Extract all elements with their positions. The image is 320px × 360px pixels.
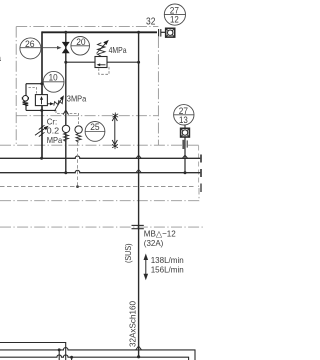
hose coupler socket 27-13 xyxy=(181,128,190,137)
boundary dash-dot left xyxy=(15,27,17,145)
junction P4/P1 xyxy=(64,31,67,34)
pipe union xyxy=(158,29,160,37)
arrow from balloon 26 xyxy=(20,47,60,49)
branch pipe P2 vertical xyxy=(41,31,43,158)
relief valve pilot dashed xyxy=(29,87,37,93)
junction P4/inlet xyxy=(64,61,67,64)
junction riser/P1 xyxy=(137,31,140,34)
drop from line B xyxy=(58,350,60,360)
svg-text:156L/min: 156L/min xyxy=(151,265,184,275)
svg-text:4MPa: 4MPa xyxy=(109,45,127,55)
tank line B (y350) xyxy=(0,348,195,360)
svg-text:MPa: MPa xyxy=(47,135,63,145)
svg-text:26: 26 xyxy=(25,39,35,50)
junction P4/L2 xyxy=(64,171,67,174)
tank line C (y357) xyxy=(0,355,189,360)
boundary dash-dot mid horizontal xyxy=(0,144,199,146)
boundary dash-dot right vertical xyxy=(157,37,159,145)
relief valve adjust arrow xyxy=(54,98,62,112)
drain header dashed line L3 xyxy=(0,186,196,188)
svg-text:MB△−12: MB△−12 xyxy=(144,229,176,239)
svg-text:13: 13 xyxy=(179,115,188,126)
branch pipe P4 vertical xyxy=(65,32,67,172)
terminal bar L1 xyxy=(200,155,202,163)
flange joint on riser xyxy=(132,224,144,226)
svg-text:32AxSch160: 32AxSch160 xyxy=(128,301,138,347)
bleed loop left xyxy=(25,84,27,96)
bleed loop bottom xyxy=(26,109,56,111)
reducing valve inlet pipe xyxy=(66,61,95,63)
tank line A (y342) xyxy=(0,343,66,360)
pressure reducing valve body xyxy=(95,57,107,68)
boundary dash-dot top xyxy=(16,26,158,28)
balloon 26 xyxy=(20,38,41,59)
reducing valve spring xyxy=(98,43,106,57)
reducing valve internal arrow xyxy=(99,64,106,66)
flow arrow double headed xyxy=(145,256,147,278)
svg-text:138L/min: 138L/min xyxy=(151,255,184,265)
riser pipe P5 xyxy=(138,32,140,357)
note asterisk top xyxy=(112,113,118,119)
svg-text:10: 10 xyxy=(49,72,58,83)
balloon 27/12 xyxy=(164,4,185,25)
coupler stem xyxy=(184,125,186,128)
bulkhead union xyxy=(182,140,185,149)
note arrow (double headed) xyxy=(114,117,116,145)
svg-text:a: a xyxy=(0,53,1,63)
boundary dash-dot inner horizontal xyxy=(16,115,158,117)
reducing valve outlet pipe xyxy=(107,61,139,63)
balloon 25 xyxy=(85,121,105,141)
svg-text:(32A): (32A) xyxy=(144,238,164,248)
stop valve (bowtie) on P4 xyxy=(62,42,70,48)
reducing valve pilot drain (dashed) xyxy=(99,66,109,75)
flow arrow on riser at tank xyxy=(136,346,142,350)
junction riser/outlet xyxy=(137,61,140,64)
main pipe P1 top xyxy=(42,31,157,33)
junction on line C xyxy=(70,356,73,359)
CV2 drain dashed xyxy=(77,142,79,186)
junction drop/L2 xyxy=(184,171,187,174)
return header line L1 xyxy=(0,156,201,158)
note asterisk bottom xyxy=(112,143,118,149)
svg-text:3MPa: 3MPa xyxy=(67,94,87,104)
relief valve internal arrow xyxy=(41,99,43,104)
svg-text:32: 32 xyxy=(146,17,156,28)
flow arrow at L1 xyxy=(182,155,188,158)
match-line dashed right edge xyxy=(198,146,200,188)
balloon 27/13 xyxy=(174,105,194,125)
flow arrow on P4 xyxy=(63,110,68,115)
boundary dash-dot line y227 xyxy=(0,226,203,228)
svg-text:25: 25 xyxy=(90,122,99,133)
drop pipe from coupler xyxy=(184,137,186,173)
flow arrows on riser at L1 L2 xyxy=(136,155,142,158)
relief valve spring seat xyxy=(50,102,54,105)
relief valve body xyxy=(35,95,47,106)
svg-text:20: 20 xyxy=(76,37,85,48)
svg-text:12: 12 xyxy=(170,15,179,26)
junction bleed loop top / P2 xyxy=(40,82,43,85)
reducing valve adjust arrow xyxy=(97,42,108,54)
ball check valve xyxy=(23,96,29,102)
svg-text:(SUS): (SUS) xyxy=(123,243,133,263)
relief valve spring xyxy=(54,98,63,106)
throttle (variable restrictor) on P2 xyxy=(35,127,47,135)
terminal bar L2 xyxy=(200,169,202,177)
junction P2/L1 xyxy=(40,157,43,160)
terminal bar L3 xyxy=(200,184,202,193)
boundary dash-dot line y200 xyxy=(0,188,199,201)
hose coupler socket 27-12 xyxy=(166,28,175,37)
check valve CV2 xyxy=(75,126,82,133)
junction bleed loop bottom / P2 xyxy=(40,109,43,112)
junction riser/tank header xyxy=(137,355,140,358)
svg-text:0.2: 0.2 xyxy=(47,126,60,136)
pilot line to check valve CV2 (dashed) xyxy=(56,110,79,125)
return header line L2 xyxy=(0,170,201,172)
bleed loop top xyxy=(26,83,42,85)
drop from line C xyxy=(71,357,73,360)
check valve CV1 xyxy=(62,125,69,132)
balloon 20 xyxy=(71,37,90,56)
junction CV2 drain / L3 xyxy=(76,185,79,188)
balloon 10 xyxy=(43,71,64,92)
junction on line B xyxy=(58,348,61,351)
